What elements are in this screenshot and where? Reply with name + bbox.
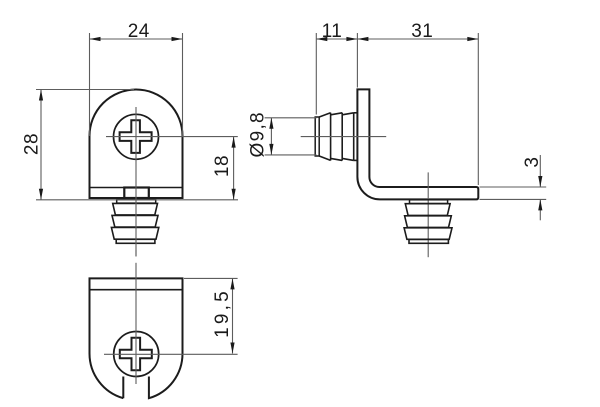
dowel cap: [116, 239, 155, 243]
svg-text:19,5: 19,5: [212, 288, 233, 338]
dim 24: [89, 33, 91, 136]
circle: [114, 332, 159, 377]
dim diameter 9,8: [265, 117, 317, 119]
horiz dowel tip collar: [315, 117, 319, 156]
L bracket outline: [357, 89, 478, 199]
svg-text:24: 24: [128, 21, 150, 42]
centerline horizontal (also ext for 18): [106, 136, 238, 138]
bottom dowel of side view: [410, 200, 448, 204]
cross: [120, 338, 152, 371]
svg-text:31: 31: [411, 21, 433, 42]
boss rect: [124, 188, 149, 199]
dim 18: [233, 137, 235, 200]
body outline D-shape: [90, 90, 183, 199]
dim 19,5: [184, 277, 238, 279]
dim 11 / 31: [315, 33, 317, 115]
rib 2: [112, 215, 158, 227]
side view centerlines: [301, 136, 387, 138]
phillips cross: [120, 120, 152, 153]
svg-text:18: 18: [212, 155, 233, 177]
centerlines: [135, 250, 137, 257]
svg-text:3: 3: [522, 157, 543, 168]
dim 28: [36, 89, 134, 91]
outline: [90, 278, 183, 398]
svg-text:11: 11: [322, 21, 343, 42]
strip inner line: [90, 289, 183, 291]
horiz dowel ribs: [330, 113, 332, 161]
rib 3: [111, 227, 158, 239]
dowel collar: [117, 200, 156, 204]
rib 1: [113, 203, 158, 215]
flange line: [90, 187, 183, 189]
centerline vertical: [135, 107, 137, 256]
svg-text:Ø9,8: Ø9,8: [248, 111, 269, 157]
svg-text:28: 28: [21, 133, 42, 155]
screw head circle: [114, 114, 159, 159]
dim 3: [480, 186, 547, 188]
